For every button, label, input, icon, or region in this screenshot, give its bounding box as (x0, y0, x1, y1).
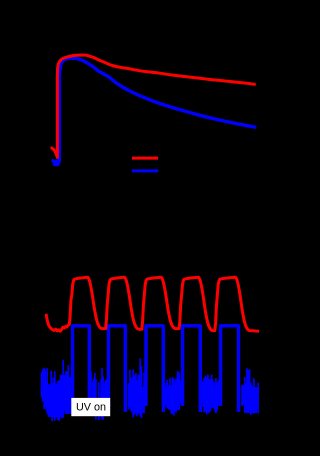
bottom panel: blue noise dense core (205, 379, 212, 411)
top panel: blue start marker blob (53, 160, 59, 167)
bottom panel: red response pulse train (46, 277, 258, 331)
UV on label box (71, 398, 110, 416)
bottom panel: blue square wave (UV on plateaus) (73, 326, 90, 412)
bottom panel: blue noise dense core (132, 387, 144, 413)
legend: blue line sample (132, 169, 158, 172)
bottom panel: blue noise (UV off periods) (42, 358, 259, 421)
bottom panel: blue noise dense core (244, 387, 257, 413)
svg-text:UV on: UV on (76, 401, 106, 413)
bottom panel: blue noise dense core (49, 384, 64, 417)
legend: red line sample (132, 157, 158, 160)
top panel: blue photocurrent decay curve (53, 58, 255, 163)
top panel: red photocurrent decay curve (52, 55, 255, 157)
bottom panel: blue noise dense core (65, 386, 72, 414)
